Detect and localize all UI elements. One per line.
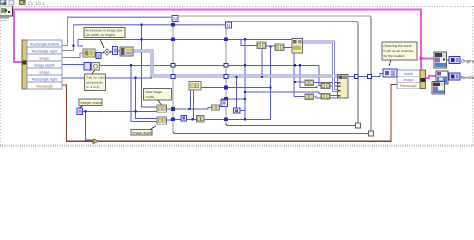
N6 mask node (383, 69, 397, 77)
A3 coercion (113, 47, 118, 55)
loop A count terminal N (172, 15, 178, 22)
loop B (inner for-loop) (226, 22, 358, 126)
wire junction (270,88) (269, 86, 271, 88)
svg-text:Rectangle.right: Rectangle.right (32, 77, 57, 81)
tunnel loop B right (356,76) (355, 75, 359, 79)
wire junction (136,111) (134, 110, 136, 112)
svg-text:N: N (173, 17, 177, 23)
tunnel loop A (173,109) (171, 107, 175, 111)
vertical x131 from A4 bottom to bottom cluster (131, 65, 157, 121)
svg-text:Rectangle: Rectangle (36, 84, 53, 88)
svg-text:LV 10.1: LV 10.1 (28, 1, 45, 7)
A4 subVI (120, 47, 133, 56)
vertical from 135.5 (136, 78, 158, 119)
svg-text:image: image (39, 56, 49, 60)
svg-text:(2x width, 2x height): (2x width, 2x height) (86, 33, 116, 37)
indicator 1 (449, 57, 460, 64)
Y1 pair (157, 105, 167, 112)
tunnel loop A right (370,76) (368, 75, 372, 79)
Y5 (305, 80, 314, 86)
RS resample subVI (436, 71, 448, 84)
tunnel loop B (226,65) (224, 64, 228, 68)
loop A (outer for-loop) (173, 16, 371, 134)
loop B count terminal N (225, 22, 231, 29)
C5 (382, 42, 417, 66)
magenta thin wire row3 to A1 (62, 53, 83, 58)
Y3 top out y99 (219, 99, 245, 107)
svg-text:image depth: image depth (34, 63, 54, 67)
A2 multiply (104, 49, 111, 55)
wire junction (74,46) (72, 45, 74, 47)
junction glyph on brown wire (93, 139, 100, 144)
Y3 (212, 105, 220, 111)
C6 (131, 126, 156, 135)
chain links (95, 52, 104, 54)
C4 (144, 89, 172, 105)
svg-text:Rectangle.right: Rectangle.right (32, 49, 57, 53)
dotted grid line top (0, 6, 474, 8)
wire junction (131,65) (130, 64, 132, 66)
Y4 (197, 116, 205, 123)
RS to indicator2 (447, 76, 449, 78)
wire junction (142,39) (140, 38, 142, 40)
svg-text:components: components (86, 80, 103, 84)
icon1 to indicator1 (446, 59, 449, 61)
P1 (257, 42, 266, 49)
y107 inside (175, 108, 212, 110)
row6 wire (62, 77, 152, 79)
svg-text:Resize 2x: Resize 2x (461, 75, 474, 80)
W1 row1 up and across to N of loop A (62, 17, 172, 45)
constant 2 (96, 53, 101, 59)
dotted grid line right (472, 6, 474, 146)
svg-text:image: image (39, 70, 49, 74)
wire junction (245,65) (244, 64, 246, 66)
image depth row to B nodes (62, 64, 84, 66)
Y8 (321, 94, 330, 100)
wire junction (190,109) (188, 108, 190, 110)
A1 (83, 49, 95, 57)
toolbar icon 1 (0, 0, 7, 5)
brown cluster wire rectangle (62, 85, 397, 142)
dotted grid line bottom (0, 145, 474, 147)
dotted grid line left (0, 6, 2, 146)
big node out to bundle (348, 74, 383, 77)
N2 bottom down to W3 run (293, 53, 295, 97)
svg-text:mask: mask (404, 72, 413, 76)
B2 out across to loop A (100, 64, 172, 66)
wire junction (136,78) (134, 77, 136, 79)
wire junction (142,25) (140, 24, 142, 26)
svg-text:image: image (403, 78, 413, 82)
wire junction (86,111) (84, 110, 86, 112)
wire junction (245,119) (244, 118, 246, 120)
y65.3 inside loops (174, 64, 319, 66)
toolbar icon 3 (19, 0, 26, 5)
C1 (84, 28, 125, 49)
wire junction (295,82) (294, 81, 296, 83)
P2 to N2 (283, 47, 292, 49)
C2 (85, 71, 106, 91)
tunnel loop A (173,65) (171, 64, 175, 68)
svg-text:Original: Original (461, 58, 474, 63)
tunnel loop B (226,39) (224, 38, 228, 42)
P1 to P2 (265, 45, 275, 47)
Y1 out to loop A tunnel (167, 108, 174, 110)
svg-text:for the reader): for the reader) (384, 54, 405, 58)
T2 bottom constant (77, 108, 83, 115)
C3 (79, 99, 102, 108)
B2 (92, 63, 100, 71)
vertical x141.5 from W2 branch down (142, 25, 158, 107)
tunnel loop B (226,119) (224, 118, 228, 122)
N6 out to bundle mask (396, 73, 397, 75)
Y2 out to loop A tunnel (167, 119, 174, 121)
conversion node on Y3 output (221, 100, 228, 107)
tunnel loop A (173,119) (171, 118, 175, 122)
VI icon top-left (0, 6, 13, 16)
Y2 pair (157, 117, 167, 124)
N4 out (240, 110, 245, 112)
wire junction (236,77) (235, 76, 237, 78)
W3 chain output down and into loop A (2D array double line) (133, 42, 338, 91)
P2 (275, 44, 284, 51)
wire junction (192,119) (191, 118, 193, 120)
N4 (234, 108, 241, 113)
x245 vertical (244, 39, 246, 119)
icon1 image display (434, 52, 447, 68)
pink image wire main run (14, 10, 436, 79)
svg-text:Integer resize: Integer resize (81, 101, 102, 105)
wire y39.3 : comment-node to N2, feeding P1 (78, 39, 296, 46)
tunnel loop A (173,76) (171, 75, 175, 79)
tunnel loop B (226,76) (224, 75, 228, 79)
y120 (175, 118, 181, 120)
svg-text:Rectangle: Rectangle (400, 84, 417, 88)
pink junction dot (420, 57, 423, 60)
svg-text:Image depth: Image depth (133, 131, 153, 135)
BN build array (338, 75, 349, 99)
N5 (181, 115, 187, 121)
x196 up to N3 (190, 90, 192, 109)
indicator 2 (449, 73, 460, 80)
svg-text:N: N (227, 23, 231, 29)
N2 subVI (292, 39, 303, 53)
bottom terminal out (82, 110, 157, 112)
tunnel loop A (173,39) (171, 38, 175, 42)
svg-text:(Resizing the mask: (Resizing the mask (384, 44, 412, 48)
wire junction (300,65) (299, 64, 301, 66)
N3 (189, 82, 201, 91)
icon2 image display lower (432, 82, 445, 95)
svg-text:inside: inside (146, 95, 155, 99)
toolbar icon 2 (9, 0, 15, 5)
svg-text:(1, 3 or 4): (1, 3 or 4) (86, 85, 99, 89)
B1 (84, 63, 91, 71)
wire junction (270,46) (269, 45, 271, 47)
Y7 (305, 94, 314, 100)
wire junction (245,39) (244, 38, 246, 40)
tunnel loop B (226,99) (224, 97, 228, 101)
svg-text:Rectangle.bottom: Rectangle.bottom (30, 42, 59, 46)
N2 right out down to y65 run (261, 49, 263, 77)
wire junction (245,99) (244, 98, 246, 100)
wire junction (262,77) (261, 76, 263, 78)
cluster wires (245, 92, 321, 94)
wire junction (245,92) (244, 91, 246, 93)
tunnel loop B (226,88) (224, 86, 228, 90)
tunnel loop A (173,25) (171, 23, 175, 27)
Y6 (321, 83, 330, 89)
svg-text:New image: New image (146, 90, 163, 94)
toolbar scraps under icon (0, 17, 9, 19)
wire junction (295,65) (294, 64, 296, 66)
svg-text:is left as an exercise: is left as an exercise (384, 49, 414, 53)
W2 row2 up and across to N of loop B (62, 25, 226, 51)
svg-text:Calc no. color: Calc no. color (86, 76, 105, 80)
